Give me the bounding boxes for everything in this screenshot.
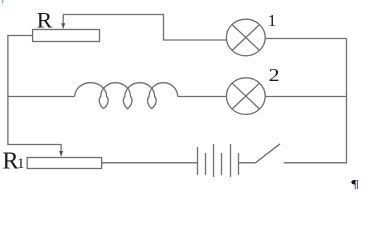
- wire: middle net left bus to inductor: [8, 96, 75, 98]
- battery cell plate short 3: [238, 153, 240, 175]
- battery cell plate long 3: [230, 144, 232, 177]
- battery cell plate long 2: [213, 144, 215, 177]
- arrowhead of wiper R1: [59, 151, 63, 157]
- wire: R1 to battery: [102, 162, 198, 164]
- lamp 1 (cross): [232, 25, 259, 51]
- wire: lamp 1 to right bus: [265, 38, 347, 40]
- wire: left bus from R down to R1 jog with wiper arrow stem: [8, 36, 61, 152]
- battery cell plate long 1: [197, 147, 199, 175]
- battery cell plate short 2: [221, 153, 223, 175]
- teal cursor artifact top-left (green over blue): [2, 0, 4, 2]
- svg-text:1: 1: [268, 11, 277, 30]
- svg-text:¶: ¶: [351, 177, 359, 190]
- lamp 2 (circle): [226, 78, 265, 115]
- wire: right bus down to switch: [284, 39, 347, 163]
- inductor L (coil with loops): [75, 83, 178, 109]
- arrow stem of wiper R: [62, 15, 64, 25]
- wire: inductor to lamp 2: [178, 96, 227, 98]
- svg-text:1: 1: [17, 156, 25, 172]
- svg-text:2: 2: [269, 66, 280, 86]
- arrowhead of wiper R: [61, 23, 65, 29]
- switch S (blade): [256, 144, 281, 163]
- resistor R (rheostat body): [33, 30, 100, 42]
- svg-text:R: R: [37, 8, 53, 32]
- wire: top net from R wiper to lamp 1: [63, 15, 227, 41]
- resistor R1 (rheostat body): [27, 158, 101, 169]
- lamp 2 (cross): [232, 83, 259, 109]
- wire: lamp 2 to right bus: [265, 96, 347, 98]
- lamp 1 (circle): [226, 19, 265, 56]
- battery cell plate short 1: [205, 153, 207, 175]
- wire: battery to switch pivot: [239, 162, 256, 164]
